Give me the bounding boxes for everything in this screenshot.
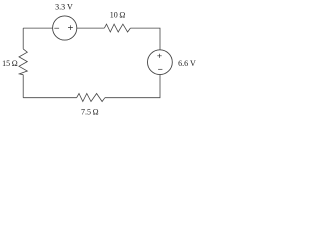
svg-text:6.6 V: 6.6 V bbox=[178, 59, 196, 68]
svg-text:7.5 Ω: 7.5 Ω bbox=[81, 108, 99, 117]
svg-text:3.3 V: 3.3 V bbox=[55, 3, 73, 12]
svg-text:10 Ω: 10 Ω bbox=[110, 11, 126, 20]
wire: V1 right terminal to resistor 10ohm bbox=[77, 27, 105, 29]
voltage source V1 3.3V circle bbox=[53, 16, 77, 40]
V1 plus sign bbox=[68, 25, 73, 30]
wire: bottom-left corner up to resistor 15ohm bbox=[22, 75, 24, 98]
wire: resistor 7.5ohm to bottom-left corner bbox=[23, 97, 76, 99]
V2 plus sign bbox=[157, 54, 161, 58]
svg-text:15 Ω: 15 Ω bbox=[2, 59, 18, 68]
V2 minus sign bbox=[158, 68, 162, 70]
V1 minus sign bbox=[54, 27, 59, 29]
wire: top-left corner to V1 left terminal bbox=[23, 27, 53, 29]
resistor 15ohm zigzag bbox=[19, 49, 27, 75]
voltage source V2 6.6V circle bbox=[148, 50, 173, 75]
wire: resistor 10ohm to top-right corner, down to V2 top bbox=[130, 28, 160, 50]
resistor 10ohm zigzag bbox=[104, 24, 130, 32]
wire: V2 bottom to bottom-right corner, left to resistor 7.5ohm bbox=[105, 75, 160, 98]
wire: resistor 15ohm up to top-left corner bbox=[22, 28, 24, 49]
resistor 7.5ohm zigzag bbox=[77, 94, 105, 102]
